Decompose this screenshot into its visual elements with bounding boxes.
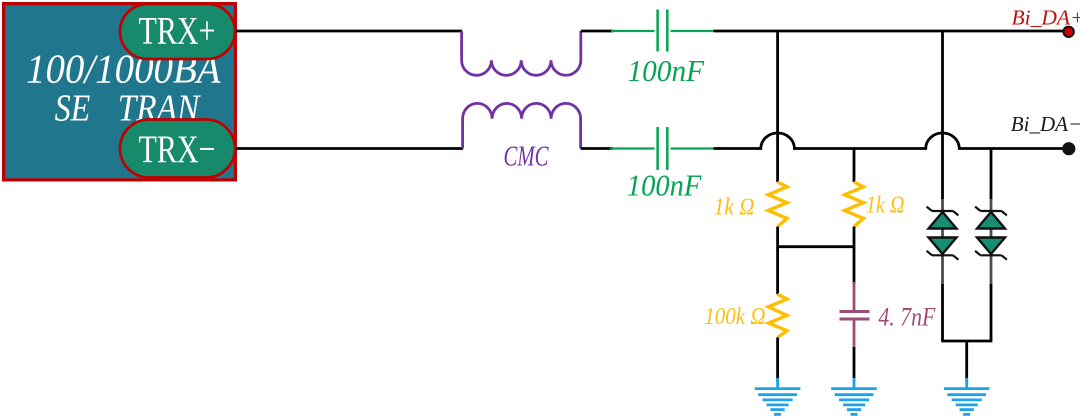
terminal Bi_DA- <box>1062 142 1075 155</box>
port TRX+ <box>120 4 235 59</box>
wire R2 bottom to junction <box>853 227 856 284</box>
capacitor C2 100nF <box>610 127 714 170</box>
svg-text:1k Ω: 1k Ω <box>866 193 905 219</box>
wire C1 to Bi_DA+ terminal <box>714 30 1065 33</box>
capacitor C3 4.7nF <box>840 282 870 347</box>
transformer block T1 body <box>4 4 236 180</box>
common-mode choke CMC winding B <box>463 103 581 148</box>
wire bottom rail to D2 <box>990 149 993 200</box>
wire R3 to ground <box>776 337 779 381</box>
wire C2 to Bi_DA- terminal with hops <box>714 133 1065 149</box>
ground GND1 <box>755 378 801 414</box>
svg-text:1k Ω: 1k Ω <box>714 195 755 221</box>
wire D1-D2 bottom link <box>941 340 992 343</box>
wire choke A to C1 <box>581 30 613 33</box>
wire D2 to bottom link <box>990 284 993 341</box>
wire bottom rail to R2 <box>853 149 856 183</box>
TVS diode D2 <box>975 199 1007 284</box>
resistor R1 1k <box>768 182 787 227</box>
svg-text:CMC: CMC <box>504 142 549 173</box>
transformer block label 100/1000BASE TRAN <box>26 46 221 130</box>
terminal Bi_DA+ <box>1063 27 1073 37</box>
wire R1-R2 cross link <box>778 245 854 248</box>
TVS diode D1 <box>927 199 959 284</box>
svg-text:TRX−: TRX− <box>139 127 216 171</box>
svg-text:100k Ω: 100k Ω <box>704 304 765 330</box>
svg-text:TRX+: TRX+ <box>139 9 216 53</box>
resistor R3 100k <box>768 294 787 337</box>
wire TRX- to choke <box>236 147 463 150</box>
port TRX- <box>120 120 235 178</box>
wire R1 bottom to junction <box>776 227 779 295</box>
wire choke B to C2 <box>581 147 613 150</box>
svg-text:4. 7nF: 4. 7nF <box>878 303 936 332</box>
ground GND3 <box>944 378 990 414</box>
resistor R2 1k <box>845 182 864 227</box>
wire top rail to R1 (through hop) <box>776 31 779 182</box>
svg-text:Bi_DA+: Bi_DA+ <box>1012 6 1080 30</box>
wire C3 to ground <box>853 347 856 381</box>
common-mode choke CMC winding A <box>462 31 581 75</box>
svg-text:Bi_DA−: Bi_DA− <box>1011 112 1080 136</box>
wire top rail to D1 (through hop) <box>941 31 944 199</box>
wire TRX+ to choke <box>236 30 462 33</box>
ground GND2 <box>831 378 877 414</box>
capacitor C1 100nF <box>611 10 714 52</box>
svg-text:100nF: 100nF <box>627 168 702 203</box>
svg-text:100nF: 100nF <box>628 53 706 88</box>
wire D1 to bottom link <box>941 284 944 341</box>
wire link to ground <box>965 341 968 381</box>
svg-text:SE: SE <box>55 88 91 130</box>
